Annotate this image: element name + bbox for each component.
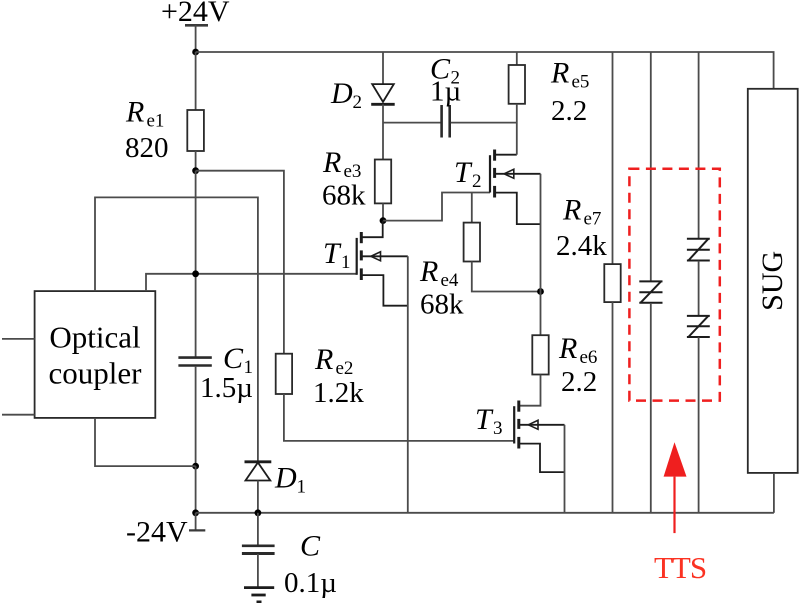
svg-text:820: 820	[125, 132, 169, 164]
node junction dot top	[192, 49, 199, 56]
resistor Re7	[604, 264, 620, 302]
wire T2 source line down to junction	[540, 174, 542, 292]
svg-text:R: R	[125, 95, 144, 128]
wire right transducer bottom	[698, 337, 700, 513]
wire C1 bottom	[195, 366, 197, 466]
wire top bus	[196, 52, 774, 89]
svg-text:R: R	[558, 332, 577, 365]
label Re1	[125, 95, 169, 164]
svg-text:0.1µ: 0.1µ	[284, 567, 337, 599]
label C2	[430, 53, 461, 108]
label TTS	[654, 550, 706, 585]
wire Re2 bottom to T3 gate	[284, 394, 515, 441]
svg-text:e2: e2	[336, 358, 354, 379]
wire Re6 bottom to T3 drain	[519, 375, 541, 406]
ground	[244, 586, 274, 589]
svg-text:Optical: Optical	[49, 320, 140, 355]
wire Re3 bottom	[382, 203, 384, 220]
wire top bus to Re7	[612, 52, 614, 264]
wire Re4 bottom	[472, 262, 541, 292]
svg-text:R: R	[314, 343, 333, 376]
resistor Re3	[375, 160, 391, 204]
transistor T1	[357, 221, 408, 306]
wire Re1 bottom	[195, 151, 197, 171]
diode D1	[245, 460, 272, 463]
wire Re4 top	[471, 193, 473, 223]
label Re2	[313, 343, 364, 409]
wire optocoupler left stub lower	[2, 414, 35, 416]
svg-text:e1: e1	[147, 111, 165, 132]
svg-text:T: T	[475, 403, 494, 436]
resistor Re1	[187, 110, 204, 151]
svg-text:C: C	[300, 530, 321, 563]
wire C2 to Re5 line	[451, 122, 517, 124]
svg-text:2.2: 2.2	[551, 95, 587, 127]
wire D1 to bus	[257, 481, 259, 513]
wire D2 to Re3	[382, 104, 384, 159]
svg-text:2.4k: 2.4k	[556, 230, 607, 262]
label Re3	[322, 146, 366, 212]
TTS dashed highlight box	[629, 169, 719, 401]
resistor Re6	[532, 335, 548, 374]
label T2	[454, 156, 482, 192]
svg-text:1: 1	[341, 252, 351, 273]
wire T3 source to bottom bus	[564, 425, 566, 513]
svg-text:2: 2	[353, 92, 363, 113]
wire Re7 bottom to bus	[612, 302, 614, 513]
svg-text:SUG: SUG	[756, 251, 789, 311]
wire optocoupler top to T1 gate	[146, 274, 357, 291]
svg-text:e5: e5	[572, 72, 590, 93]
svg-text:1.2k: 1.2k	[313, 377, 364, 409]
wire top bus to Re5	[516, 52, 518, 65]
svg-text:R: R	[550, 57, 569, 90]
label Re7	[556, 194, 607, 262]
svg-text:e6: e6	[580, 347, 598, 368]
node junction dot Re3/T1	[380, 217, 387, 224]
label Optical coupler	[49, 320, 143, 391]
wire -24V stub	[195, 513, 197, 531]
svg-text:R: R	[322, 146, 341, 179]
wire optocoupler top to D1 line	[95, 197, 258, 461]
wire optocoupler bottom return	[95, 418, 196, 466]
svg-text:e7: e7	[584, 209, 602, 230]
svg-text:2: 2	[472, 171, 482, 192]
node -24V label	[126, 515, 188, 548]
wire Re5 bottom to T2 drain	[516, 104, 518, 155]
node junction dot Re1 bottom	[192, 167, 199, 174]
svg-text:D: D	[330, 77, 353, 110]
svg-text:R: R	[419, 255, 438, 288]
wire bus to capacitor C	[257, 513, 259, 545]
wire between right transducers	[698, 261, 700, 316]
node junction dot Re4/T2 source	[537, 288, 544, 295]
label T1	[323, 237, 351, 273]
svg-text:R: R	[562, 194, 581, 227]
transistor T2	[490, 150, 541, 225]
svg-text:1: 1	[297, 477, 307, 498]
svg-text:+24V: +24V	[161, 0, 230, 28]
capacitor C	[242, 544, 275, 547]
SUG box	[748, 89, 798, 473]
wire right transducer top	[698, 52, 700, 238]
label T3	[475, 403, 503, 439]
TTS arrow	[664, 442, 687, 476]
node junction dot gate line	[192, 270, 199, 277]
wire Re3 junction to T2 gate	[383, 193, 490, 221]
svg-text:C: C	[223, 342, 244, 375]
transducer element right lower	[687, 316, 710, 337]
label D2	[330, 77, 362, 113]
capacitor C1	[178, 356, 211, 359]
wire C1 line down from Re1 junction	[195, 171, 197, 357]
+24V terminal bar	[185, 24, 208, 27]
resistor Re2	[276, 354, 292, 394]
label Re5	[550, 57, 589, 128]
label C1	[200, 342, 253, 404]
wire left transducer top	[650, 52, 652, 281]
svg-text:2.2: 2.2	[561, 366, 597, 398]
wire D2 branch to C2	[383, 122, 441, 124]
transducer element right upper	[687, 239, 710, 261]
svg-text:68k: 68k	[322, 180, 366, 212]
node junction dot -24V	[192, 509, 199, 516]
node +24V label	[161, 0, 230, 28]
node junction dot optocoupler return	[192, 463, 199, 470]
svg-text:T: T	[454, 156, 473, 189]
node junction dot D1 bus	[255, 509, 262, 516]
svg-text:coupler: coupler	[49, 356, 143, 391]
label D1	[274, 462, 306, 498]
label SUG	[756, 251, 789, 311]
wire +24V down to Re1	[195, 52, 197, 110]
transistor T3	[514, 401, 564, 473]
wire bottom bus	[196, 512, 774, 514]
wire to bottom bus	[195, 466, 197, 513]
svg-text:68k: 68k	[420, 289, 464, 321]
label Re6	[558, 332, 597, 398]
-24V terminal bar	[189, 529, 205, 531]
wire +24V terminal to top bus	[195, 25, 197, 52]
wire optocoupler left stub upper	[2, 338, 35, 340]
transducer element left	[639, 281, 662, 302]
svg-text:3: 3	[493, 418, 503, 439]
op-amp box: optical coupler	[35, 291, 156, 418]
wire Re1 junction to Re2 top	[196, 171, 284, 354]
wire T2 junction to Re6	[540, 292, 542, 336]
wire C to ground	[257, 554, 259, 587]
resistor Re5	[509, 65, 525, 104]
diode D2	[372, 84, 394, 102]
svg-text:D: D	[274, 462, 297, 495]
wire T1 source to bottom bus	[407, 256, 409, 513]
svg-text:-24V: -24V	[126, 515, 188, 548]
wire left transducer bottom	[650, 303, 652, 513]
capacitor C2	[440, 105, 443, 138]
label Re4	[419, 255, 464, 321]
label C	[284, 530, 337, 600]
wire top bus to D2	[382, 52, 384, 84]
wire SUG bottom to bus	[773, 473, 775, 513]
svg-text:T: T	[323, 237, 342, 270]
resistor Re4	[464, 223, 480, 262]
svg-text:1.5µ: 1.5µ	[200, 372, 253, 404]
svg-text:1µ: 1µ	[430, 76, 461, 108]
svg-text:TTS: TTS	[654, 550, 706, 585]
